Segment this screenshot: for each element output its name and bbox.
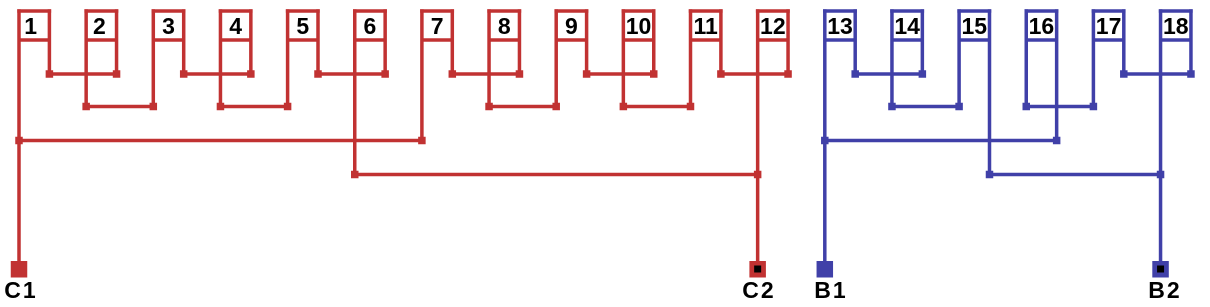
wire coil 18 finish leg	[1189, 9, 1193, 74]
svg-text:9: 9	[565, 13, 578, 39]
coil 10	[622, 11, 656, 40]
wire coil 15 finish to B2 riser	[990, 173, 1161, 177]
wire finish 1 to finish 2	[49, 72, 116, 76]
junction at coil 18 finish	[1187, 70, 1195, 78]
coil 4	[219, 11, 253, 40]
wire coil 18 start leg	[1159, 9, 1163, 261]
wire coil 6 finish leg	[383, 9, 387, 74]
coil 1	[17, 11, 51, 40]
junction at coil 2 finish	[113, 70, 121, 78]
junction at coil 2 start	[82, 103, 90, 111]
wire start 10 to start 11	[623, 105, 690, 109]
coil 7	[420, 11, 454, 40]
wire finish 3 to finish 4	[184, 72, 251, 76]
junction coil 6 start / bus	[351, 171, 359, 179]
junction at coil 3 start	[150, 103, 158, 111]
junction at coil 17 start	[1090, 103, 1098, 111]
coil 14	[890, 11, 924, 40]
svg-text:11: 11	[694, 13, 719, 39]
wire coil 17 start leg	[1092, 9, 1096, 106]
wire coil 7 finish leg	[451, 9, 455, 74]
junction at coil 14 finish	[919, 70, 927, 78]
wire C1 bus to coil 7 start	[19, 139, 422, 143]
wire coil 16 start leg	[1025, 9, 1029, 106]
wire finish 13 to finish 14	[855, 72, 922, 76]
coil 2	[84, 11, 118, 40]
wire finish 11 to finish 12	[721, 72, 788, 76]
junction at coil 14 start	[888, 103, 896, 111]
wire start 16 to start 17	[1026, 105, 1093, 109]
coil 16	[1025, 11, 1059, 40]
junction at coil 8 finish	[516, 70, 524, 78]
junction at coil 9 start	[552, 103, 560, 111]
svg-text:1: 1	[24, 13, 37, 39]
wire start 2 to start 3	[86, 105, 153, 109]
svg-text:15: 15	[962, 13, 988, 39]
junction at coil 3 finish	[180, 70, 188, 78]
junction at coil 17 finish	[1120, 70, 1128, 78]
coil 13	[823, 11, 857, 40]
svg-text:7: 7	[431, 13, 444, 39]
junction at coil 5 finish	[314, 70, 322, 78]
svg-text:14: 14	[894, 13, 920, 39]
svg-text:17: 17	[1096, 13, 1122, 39]
wire coil 2 start leg	[84, 9, 88, 106]
terminal C1	[11, 261, 28, 278]
wire coil 10 start leg	[622, 9, 626, 106]
svg-text:10: 10	[626, 13, 652, 39]
wire coil 11 finish leg	[719, 9, 723, 74]
junction at coil 16 start	[1023, 103, 1031, 111]
coil 9	[554, 11, 588, 40]
wire coil 1 finish leg	[48, 9, 52, 74]
wire coil 8 start leg	[487, 9, 491, 106]
svg-text:B2: B2	[1148, 277, 1181, 303]
junction at coil 4 start	[217, 103, 225, 111]
svg-text:13: 13	[827, 13, 853, 39]
wire finish 5 to finish 6	[318, 72, 385, 76]
junction at coil 15 start	[955, 103, 963, 111]
wire coil 11 start leg	[689, 9, 693, 106]
coil 3	[152, 11, 186, 40]
junction at coil 5 start	[284, 103, 292, 111]
wire coil 16 finish leg	[1055, 9, 1059, 140]
junction at coil 6 finish	[381, 70, 389, 78]
junction at coil 11 start	[687, 103, 695, 111]
wire coil 10 finish leg	[652, 9, 656, 74]
junction at coil 11 finish	[717, 70, 725, 78]
wire coil 12 finish leg	[786, 9, 790, 74]
coil 8	[487, 11, 521, 40]
wire coil 8 finish leg	[518, 9, 522, 74]
junction coil 16 finish / bus	[1053, 137, 1061, 145]
wire coil 12 start leg	[756, 9, 760, 261]
svg-text:3: 3	[162, 13, 175, 39]
svg-text:12: 12	[760, 13, 786, 39]
terminal B1	[817, 261, 834, 278]
wire start 8 to start 9	[489, 105, 556, 109]
terminal B2	[1152, 261, 1169, 278]
wire coil 7 start leg	[420, 9, 424, 140]
svg-text:2: 2	[93, 13, 106, 39]
coil 17	[1092, 11, 1126, 40]
coil 6	[353, 11, 387, 40]
wire coil 6 start leg	[353, 9, 357, 174]
junction C1 riser / bus	[15, 137, 23, 145]
wire coil 4 start leg	[219, 9, 223, 106]
wire coil 13 start leg	[823, 9, 827, 261]
junction at coil 12 finish	[784, 70, 792, 78]
coil 15	[957, 11, 991, 40]
svg-text:B1: B1	[814, 277, 847, 303]
junction at coil 8 start	[485, 103, 493, 111]
svg-text:16: 16	[1029, 13, 1055, 39]
wire coil 13 finish leg	[853, 9, 857, 74]
svg-text:4: 4	[229, 13, 242, 39]
wire coil 3 finish leg	[182, 9, 186, 74]
terminal C2	[749, 261, 766, 278]
coil 18	[1159, 11, 1193, 40]
junction at coil 10 finish	[650, 70, 658, 78]
wire coil 9 finish leg	[585, 9, 589, 74]
wire finish 9 to finish 10	[587, 72, 654, 76]
wire start 14 to start 15	[892, 105, 959, 109]
coil 5	[286, 11, 320, 40]
wire coil 5 finish leg	[316, 9, 320, 74]
wire coil 4 finish leg	[249, 9, 253, 74]
wire coil 14 finish leg	[921, 9, 925, 74]
wire coil 6 start to C2 riser	[355, 173, 758, 177]
svg-text:C1: C1	[4, 277, 37, 303]
junction at coil 4 finish	[247, 70, 255, 78]
wire coil 3 start leg	[152, 9, 156, 106]
junction at coil 7 finish	[449, 70, 457, 78]
junction coil 15 finish / bus	[986, 171, 994, 179]
wire coil 2 finish leg	[115, 9, 119, 74]
wire B1 bus to coil 16 finish	[825, 139, 1057, 143]
junction B1 riser / bus	[821, 137, 829, 145]
junction B2 riser / bus	[1157, 171, 1165, 179]
svg-text:6: 6	[364, 13, 377, 39]
junction at coil 10 start	[620, 103, 628, 111]
junction at coil 13 finish	[851, 70, 859, 78]
junction coil 7 start / bus	[418, 137, 426, 145]
wire coil 15 finish leg	[988, 9, 992, 174]
wire coil 17 finish leg	[1122, 9, 1126, 74]
wire coil 1 start leg	[17, 9, 21, 261]
wire coil 5 start leg	[286, 9, 290, 106]
wire finish 7 to finish 8	[452, 72, 519, 76]
svg-text:18: 18	[1163, 13, 1189, 39]
junction at coil 9 finish	[583, 70, 591, 78]
wire coil 15 start leg	[957, 9, 961, 106]
svg-text:5: 5	[296, 13, 309, 39]
wire start 4 to start 5	[220, 105, 287, 109]
junction C2 riser / bus	[754, 171, 762, 179]
wire coil 14 start leg	[890, 9, 894, 106]
svg-text:8: 8	[498, 13, 511, 39]
svg-text:C2: C2	[742, 277, 775, 303]
wire coil 9 start leg	[554, 9, 558, 106]
wire finish 17 to finish 18	[1124, 72, 1191, 76]
coil 11	[689, 11, 723, 40]
junction at coil 1 finish	[46, 70, 54, 78]
coil 12	[756, 11, 790, 40]
